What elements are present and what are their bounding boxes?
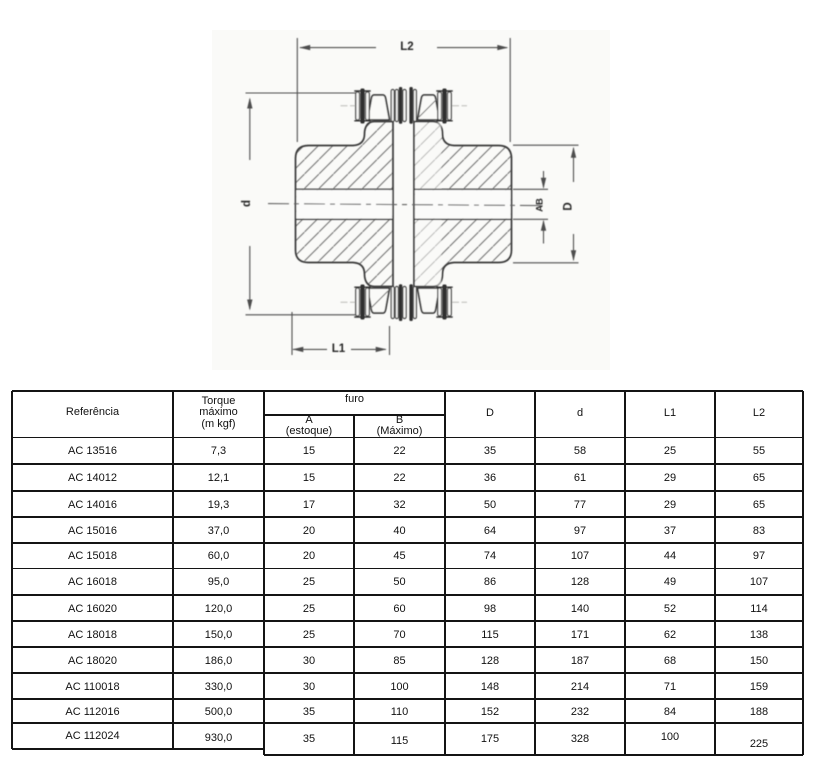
dimension AB — [543, 171, 545, 188]
dimension L2 — [300, 47, 376, 49]
hatch line inside bottom-left tooth (scan artifact) — [370, 291, 388, 309]
dimension L2 extension lines — [296, 38, 298, 142]
left hub / sprocket body (hatched section) — [296, 122, 394, 287]
svg-text:AB: AB — [535, 198, 546, 212]
bore band right — [415, 190, 511, 218]
header bottom — [12, 437, 803, 439]
chain link plates top centre — [391, 90, 394, 122]
dimension L1 extension lines — [291, 312, 293, 355]
dimension L1 — [293, 348, 327, 350]
chain pin & washers bottom right — [438, 288, 442, 316]
svg-text:D: D — [563, 202, 575, 210]
svg-text:d: d — [241, 200, 253, 207]
table top border — [12, 390, 803, 392]
pin centreline top — [341, 105, 468, 107]
sprocket tooth bottom-left — [368, 288, 390, 313]
sprocket tooth bottom-right — [418, 288, 440, 313]
chain pin & washers top right — [438, 92, 442, 120]
dimension AB extension lines — [513, 188, 548, 190]
dimension d — [249, 99, 251, 160]
sprocket tooth top-right — [418, 95, 440, 120]
dimension d extension lines — [246, 92, 357, 94]
furo sub-divider — [264, 414, 445, 416]
svg-text:L1: L1 — [332, 343, 346, 355]
dimension D — [573, 148, 575, 182]
scan fade over right plate — [415, 123, 441, 189]
bore band left — [296, 190, 392, 218]
chain pin & washers bottom left — [356, 288, 360, 316]
shaft centreline (dash-dot) — [268, 204, 545, 206]
sprocket tooth top-left — [368, 95, 390, 120]
chain link plates bottom centre — [391, 287, 394, 319]
scanned image background tint — [212, 30, 610, 370]
pin centreline bottom — [341, 301, 468, 303]
right hub / sprocket body (hatched section) — [414, 122, 512, 287]
scanned technical drawing of chain coupling — [0, 0, 819, 390]
hatch line inside top-right tooth (scan artifact) — [419, 99, 437, 117]
dimension D extension lines — [513, 144, 579, 146]
svg-text:L2: L2 — [400, 41, 413, 53]
chain pin & washers top left — [356, 92, 360, 120]
